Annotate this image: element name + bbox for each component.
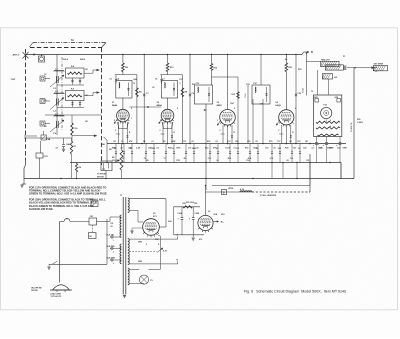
svg-text:R11: R11 <box>192 84 195 86</box>
svg-text:C2: C2 <box>44 74 46 76</box>
svg-text:3: 3 <box>113 263 114 265</box>
svg-text:NBA CPO: NBA CPO <box>321 58 330 61</box>
svg-text:C15: C15 <box>270 158 273 160</box>
svg-text:R6B: R6B <box>112 148 116 150</box>
svg-text:C3: C3 <box>44 100 46 102</box>
svg-text:C6A: C6A <box>133 78 137 81</box>
svg-text:C31: C31 <box>110 223 113 225</box>
svg-text:R12: R12 <box>205 148 208 150</box>
svg-text:R19: R19 <box>269 141 272 143</box>
svg-text:.05: .05 <box>273 148 276 150</box>
svg-text:C7: C7 <box>164 158 166 160</box>
svg-text:1500: 1500 <box>253 148 257 150</box>
svg-text:C7B: C7B <box>176 160 180 162</box>
svg-text:.02: .02 <box>215 141 218 143</box>
svg-text:C5A: C5A <box>128 147 132 150</box>
svg-text:BLK-YEL: BLK-YEL <box>107 235 116 237</box>
svg-text:6BE6: 6BE6 <box>217 105 223 107</box>
svg-text:2: 2 <box>160 120 161 122</box>
svg-text:R24A 470K: R24A 470K <box>350 122 353 132</box>
svg-text:R9: R9 <box>163 141 165 143</box>
svg-text:TO ALL HEATERS: TO ALL HEATERS <box>260 194 277 197</box>
svg-text:S2: S2 <box>89 236 91 238</box>
svg-text:6: 6 <box>295 108 296 110</box>
svg-text:C-2: C-2 <box>53 88 56 90</box>
svg-text:1: 1 <box>217 120 218 122</box>
svg-text:1 MEG: 1 MEG <box>357 122 363 124</box>
svg-text:V6: V6 <box>208 211 210 213</box>
svg-text:150: 150 <box>293 148 296 150</box>
svg-text:6: 6 <box>234 108 235 110</box>
svg-text:C4B: C4B <box>47 138 51 141</box>
svg-text:B: B <box>223 192 225 195</box>
svg-text:R-5: R-5 <box>71 89 74 91</box>
svg-text:1: 1 <box>278 120 279 122</box>
svg-text:C13A: C13A <box>225 147 230 150</box>
svg-text:R15: R15 <box>245 148 248 150</box>
svg-text:10: 10 <box>133 83 135 85</box>
svg-text:1M: 1M <box>85 121 88 123</box>
svg-text:C8: C8 <box>152 87 154 89</box>
svg-text:2: 2 <box>113 251 114 253</box>
svg-text:.02: .02 <box>156 148 159 150</box>
svg-text:R8: R8 <box>112 157 114 159</box>
svg-text:BLK-GRN: BLK-GRN <box>107 258 116 260</box>
svg-text:P-M: P-M <box>324 105 328 107</box>
svg-text:1M: 1M <box>85 69 88 71</box>
svg-text:2.2M: 2.2M <box>136 148 141 150</box>
svg-text:C22: C22 <box>303 148 306 150</box>
svg-text:6AQ5: 6AQ5 <box>275 104 281 107</box>
svg-text:C13: C13 <box>227 141 230 143</box>
svg-text:.01: .01 <box>216 160 219 162</box>
svg-text:C21: C21 <box>306 160 309 162</box>
svg-text:115V: 115V <box>11 79 16 81</box>
svg-text:8: 8 <box>330 120 331 122</box>
svg-text:R9: R9 <box>184 158 186 160</box>
svg-text:SW-A: SW-A <box>63 58 69 61</box>
svg-text:L-2: L-2 <box>55 91 58 93</box>
svg-text:.01: .01 <box>233 148 236 150</box>
svg-text:1M: 1M <box>85 95 88 97</box>
svg-text:HTRS: HTRS <box>228 188 234 190</box>
svg-text:C19: C19 <box>297 141 300 143</box>
svg-text:C23: C23 <box>319 148 322 150</box>
svg-text:6BA6: 6BA6 <box>157 104 163 107</box>
svg-text:.05: .05 <box>255 141 258 143</box>
svg-text:C10: C10 <box>179 79 182 81</box>
svg-text:C17: C17 <box>277 141 280 143</box>
svg-text:R30 1200: R30 1200 <box>186 202 194 204</box>
svg-text:R1: R1 <box>74 146 76 148</box>
svg-text:.1: .1 <box>179 83 181 85</box>
svg-text:C5: C5 <box>121 141 123 143</box>
svg-text:10MF: 10MF <box>343 148 347 150</box>
svg-text:C5B: C5B <box>116 160 120 162</box>
svg-text:GREEN TO TERMINAL NO.2. USE A: GREEN TO TERMINAL NO.2. USE A 0.5 AMP SL… <box>29 192 108 196</box>
svg-text:B: B <box>311 51 313 54</box>
svg-text:C11: C11 <box>188 148 191 150</box>
svg-text:C16: C16 <box>265 148 268 150</box>
svg-text:R6: R6 <box>79 167 81 169</box>
svg-text:.05: .05 <box>298 148 301 150</box>
svg-text:1: 1 <box>113 240 114 242</box>
svg-text:P2: P2 <box>375 71 377 73</box>
svg-text:C30B: C30B <box>195 213 200 215</box>
svg-text:C8: C8 <box>155 79 157 81</box>
svg-text:C4A: C4A <box>66 143 70 146</box>
svg-text:R9A: R9A <box>168 147 172 150</box>
svg-text:R12: R12 <box>228 158 231 160</box>
svg-text:R25: R25 <box>357 119 360 121</box>
svg-text:C6: C6 <box>143 141 145 143</box>
svg-text:C15: C15 <box>247 141 250 143</box>
svg-text:R22: R22 <box>298 69 301 71</box>
svg-text:OSC: OSC <box>230 103 235 105</box>
svg-text:C1C: C1C <box>253 83 258 85</box>
svg-text:R32: R32 <box>155 239 158 241</box>
svg-text:Fig. 6 Schematic Circuit Dia: Fig. 6 Schematic Circuit Diagram Model 5… <box>244 290 346 294</box>
svg-text:220K: 220K <box>171 141 176 143</box>
svg-text:C40: C40 <box>194 202 197 205</box>
svg-text:C13: C13 <box>236 148 239 150</box>
svg-text:6BA6: 6BA6 <box>112 104 118 107</box>
svg-text:.01: .01 <box>151 141 154 143</box>
svg-text:R20: R20 <box>285 148 288 150</box>
svg-text:5: 5 <box>131 108 132 110</box>
svg-text:C14B: C14B <box>245 93 247 98</box>
svg-text:.05: .05 <box>286 160 289 162</box>
svg-text:4.7: 4.7 <box>56 147 59 150</box>
svg-text:20MF: 20MF <box>327 148 333 150</box>
svg-text:R12: R12 <box>207 141 210 143</box>
svg-text:F1: F1 <box>66 219 68 221</box>
svg-text:117V: 117V <box>44 156 49 158</box>
svg-text:ANT G: ANT G <box>13 54 20 57</box>
svg-text:BLK-RED: BLK-RED <box>107 246 116 248</box>
svg-text:470: 470 <box>199 238 202 241</box>
svg-text:T2: T2 <box>311 91 313 93</box>
svg-text:C6: C6 <box>110 79 112 81</box>
svg-text:ON R30: ON R30 <box>31 290 38 292</box>
svg-text:C1D: C1D <box>246 84 250 86</box>
svg-text:.02: .02 <box>289 141 292 143</box>
svg-text:C11: C11 <box>208 158 211 160</box>
svg-text:L25: L25 <box>334 77 337 79</box>
svg-text:1M: 1M <box>305 141 308 143</box>
svg-text:.01: .01 <box>172 148 175 150</box>
svg-text:L-1: L-1 <box>55 69 58 71</box>
svg-text:TO PHONO: TO PHONO <box>97 174 107 176</box>
svg-text:.05: .05 <box>113 141 116 143</box>
svg-text:P1: P1 <box>343 56 345 58</box>
svg-text:6.3V: 6.3V <box>240 189 245 191</box>
svg-text:R-6: R-6 <box>75 128 78 130</box>
svg-text:.05: .05 <box>122 158 125 160</box>
svg-text:5: 5 <box>177 108 178 110</box>
svg-text:R15: R15 <box>232 94 235 96</box>
svg-text:C6B: C6B <box>148 148 152 150</box>
svg-text:.05: .05 <box>196 148 199 150</box>
svg-text:.02: .02 <box>311 148 314 150</box>
svg-text:SW-B: SW-B <box>80 59 86 61</box>
svg-text:R8A: R8A <box>101 143 105 146</box>
svg-text:.05: .05 <box>191 141 194 143</box>
svg-text:2M: 2M <box>109 149 112 151</box>
svg-text:.05: .05 <box>120 148 123 150</box>
svg-text:SLOW-BLOW FUSE.: SLOW-BLOW FUSE. <box>29 207 54 211</box>
svg-text:.05: .05 <box>110 226 113 228</box>
svg-text:C-3: C-3 <box>53 111 56 113</box>
svg-text:8: 8 <box>158 244 159 246</box>
svg-text:MOTOR: MOTOR <box>97 176 104 178</box>
svg-text:7: 7 <box>131 118 132 120</box>
svg-text:117V AC-DC: 117V AC-DC <box>51 295 62 298</box>
svg-text:100K: 100K <box>176 148 181 150</box>
svg-text:R24A: R24A <box>302 88 305 93</box>
svg-text:C16: C16 <box>290 158 293 160</box>
svg-text:.05: .05 <box>146 160 149 162</box>
svg-text:FU1: FU1 <box>90 216 93 218</box>
svg-text:C30A: C30A <box>178 212 183 215</box>
svg-text:2: 2 <box>146 244 147 246</box>
svg-text:2: 2 <box>114 120 115 122</box>
svg-text:C11: C11 <box>183 141 186 143</box>
